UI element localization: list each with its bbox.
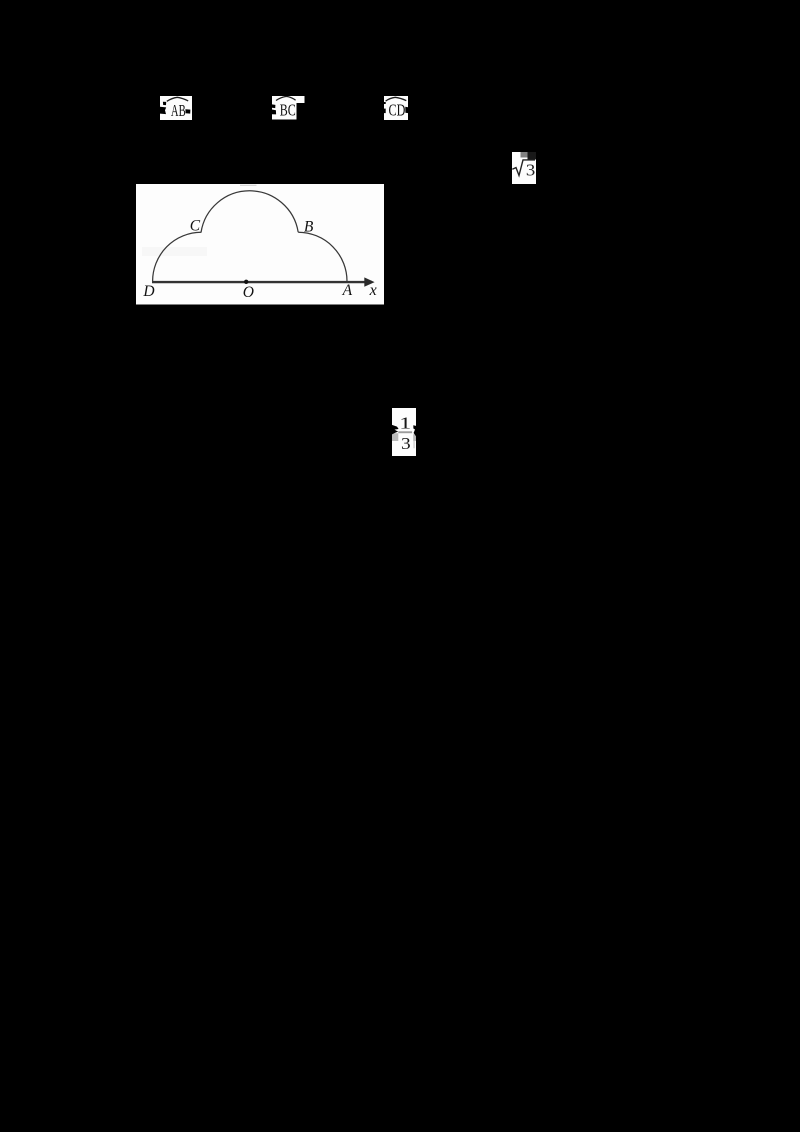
dark block xyxy=(527,152,535,159)
stray ink left xyxy=(384,102,386,104)
svg-text:x: x xyxy=(369,282,377,299)
arc B-A (right) xyxy=(298,232,347,281)
arrowhead x xyxy=(364,277,374,286)
equation image: sqrt(3) xyxy=(512,152,536,184)
svg-text:3: 3 xyxy=(526,160,535,179)
stray ink right xyxy=(413,425,416,436)
svg-text:CD: CD xyxy=(389,100,406,119)
svg-text:AB: AB xyxy=(171,101,186,120)
svg-text:B: B xyxy=(304,219,314,236)
svg-text:D: D xyxy=(142,283,154,300)
gray block xyxy=(521,152,528,157)
svg-text:O: O xyxy=(243,284,254,301)
svg-text:C: C xyxy=(190,218,201,235)
faint tick top xyxy=(240,184,257,187)
dot at O xyxy=(244,280,248,284)
x-axis line xyxy=(152,281,372,283)
arc hat over BC xyxy=(276,96,296,100)
faint watermark smudge xyxy=(142,247,207,256)
arc D-C (left) xyxy=(153,232,202,281)
gray patch left xyxy=(392,433,398,441)
svg-text:1: 1 xyxy=(399,413,411,432)
stray ink left xyxy=(392,424,399,433)
fraction bar xyxy=(398,431,412,433)
equation image: fraction 1/3 xyxy=(392,408,416,457)
stray ink right xyxy=(405,106,408,112)
equation image: arc AB xyxy=(160,96,192,121)
radical sign xyxy=(512,160,535,176)
gray patch right xyxy=(413,434,416,441)
arc hat over CD xyxy=(386,97,407,101)
svg-text:BC: BC xyxy=(280,101,296,120)
stray ink left xyxy=(163,101,166,104)
equation image: arc CD xyxy=(384,96,408,121)
svg-text:3: 3 xyxy=(401,433,411,452)
stray ink right xyxy=(185,109,190,113)
figure image: cloud of arcs on x-axis xyxy=(136,184,384,305)
arc hat over AB xyxy=(167,97,188,101)
stray ink left xyxy=(272,104,275,108)
svg-text:A: A xyxy=(342,282,353,299)
equation image: arc BC xyxy=(272,96,305,120)
arc C-B (top) xyxy=(201,191,298,233)
